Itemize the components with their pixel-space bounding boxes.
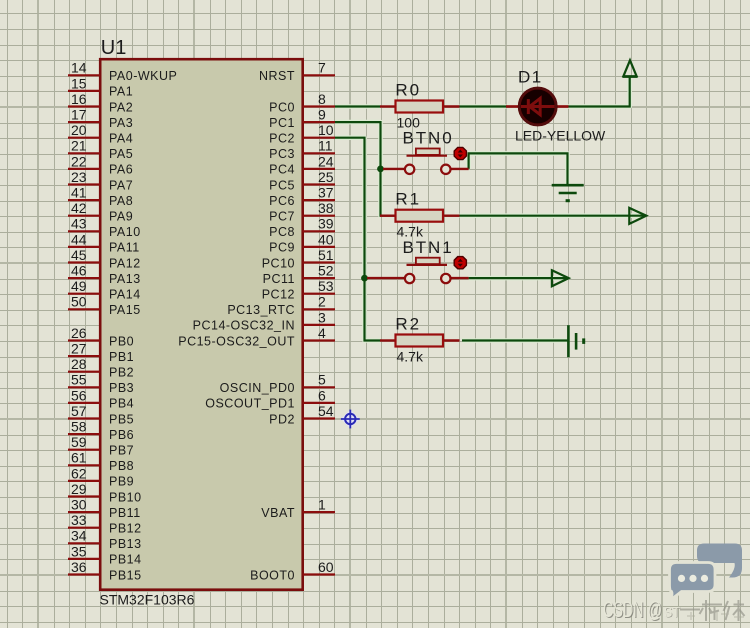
IC U1 (STM32F103R6 microcontroller) body [100, 37, 303, 590]
svg-text:36: 36 [71, 559, 87, 575]
wire R2 to ground [462, 338, 568, 343]
svg-text:PB13: PB13 [109, 537, 142, 551]
push button BTN0 [383, 129, 469, 174]
svg-text:28: 28 [71, 356, 87, 372]
resistor R0 value 100 [380, 80, 460, 130]
pin 55 PB3 [68, 372, 134, 395]
svg-text:PA14: PA14 [109, 288, 141, 302]
wire BTN0 right contact up to ground [469, 153, 568, 185]
svg-text:PB5: PB5 [109, 412, 134, 426]
svg-text:PB3: PB3 [109, 381, 134, 395]
pin 11 PC3 [269, 138, 335, 161]
pin 10 PC2 [269, 122, 335, 145]
pin 40 PC9 [269, 231, 335, 254]
svg-text:PB12: PB12 [109, 522, 142, 536]
svg-text:38: 38 [318, 200, 334, 216]
svg-text:21: 21 [71, 138, 87, 154]
svg-text:16: 16 [71, 91, 87, 107]
svg-text:PC9: PC9 [269, 241, 295, 255]
wire R1 to output arrow [460, 213, 646, 218]
pin 38 PC7 [269, 200, 335, 223]
svg-text:25: 25 [318, 169, 334, 185]
pin 27 PB1 [68, 341, 134, 364]
svg-text:59: 59 [71, 434, 87, 450]
LED D1 LED-YELLOW [506, 68, 606, 144]
svg-text:39: 39 [318, 216, 334, 232]
svg-text:PB4: PB4 [109, 397, 134, 411]
svg-text:U1: U1 [101, 37, 127, 59]
svg-text:PC0: PC0 [269, 100, 295, 114]
pin 17 PA3 [68, 107, 133, 130]
ground (R2, rotated right) [568, 325, 583, 357]
ground (BTN0) [552, 185, 584, 201]
svg-text:R0: R0 [395, 80, 421, 99]
resistor R2 value 4.7k [380, 314, 460, 364]
svg-text:PA3: PA3 [109, 116, 133, 130]
svg-text:STM32F103R6: STM32F103R6 [100, 592, 195, 608]
pin 44 PA11 [68, 231, 140, 254]
svg-text:PC14-OSC32_IN: PC14-OSC32_IN [193, 319, 295, 333]
svg-text:9: 9 [318, 107, 326, 123]
pin 61 PB8 [68, 450, 134, 473]
svg-text:PA15: PA15 [109, 303, 141, 317]
svg-text:PB10: PB10 [109, 490, 142, 504]
svg-text:PC3: PC3 [269, 147, 295, 161]
pin 7 NRST [259, 60, 335, 83]
svg-text:35: 35 [71, 543, 87, 559]
svg-text:15: 15 [71, 75, 87, 91]
pin 26 PB0 [68, 325, 134, 348]
svg-text:D1: D1 [518, 68, 543, 87]
svg-text:PC12: PC12 [262, 288, 295, 302]
svg-text:43: 43 [71, 216, 87, 232]
svg-text:46: 46 [71, 263, 87, 279]
svg-text:PB2: PB2 [109, 366, 134, 380]
svg-text:ST: ST [664, 604, 680, 621]
wire D1 to power arrow [568, 77, 630, 107]
svg-text:2: 2 [318, 294, 326, 310]
svg-text:PC2: PC2 [269, 132, 295, 146]
pin 60 BOOT0 [250, 559, 335, 582]
svg-text:PC15-OSC32_OUT: PC15-OSC32_OUT [178, 334, 295, 348]
pin 30 PB11 [68, 497, 141, 520]
pin 35 PB14 [68, 543, 142, 566]
pin 62 PB9 [68, 465, 134, 488]
svg-text:14: 14 [71, 60, 87, 76]
svg-text:6: 6 [318, 387, 326, 403]
svg-text:PC10: PC10 [262, 256, 295, 270]
pin 46 PA13 [68, 263, 141, 286]
svg-text:3: 3 [318, 309, 326, 325]
junction at PC2/BTN1 node [361, 275, 368, 282]
svg-text:53: 53 [318, 278, 334, 294]
pin 23 PA7 [68, 169, 133, 192]
svg-text:23: 23 [71, 169, 87, 185]
pin 2 PC13_RTC [227, 294, 335, 317]
svg-text:29: 29 [71, 481, 87, 497]
pin 24 PC4 [269, 153, 335, 176]
watermark logo bubbles [670, 544, 743, 601]
svg-text:CSDN @: CSDN @ [603, 597, 662, 622]
junction at PC1/BTN0 node [377, 166, 384, 173]
output terminal arrow (R1) [629, 208, 646, 224]
svg-text:5: 5 [318, 372, 326, 388]
svg-text:PB15: PB15 [109, 568, 142, 582]
pin 57 PB5 [68, 403, 134, 426]
pin 54 PD2 [269, 403, 335, 426]
svg-text:27: 27 [71, 341, 87, 357]
svg-text:56: 56 [71, 387, 87, 403]
svg-text:8: 8 [318, 91, 326, 107]
svg-text:1: 1 [318, 497, 326, 513]
svg-text:41: 41 [71, 185, 87, 201]
pin 43 PA10 [68, 216, 141, 239]
svg-text:PD2: PD2 [269, 412, 295, 426]
svg-text:PA0-WKUP: PA0-WKUP [109, 69, 177, 83]
svg-text:PB9: PB9 [109, 475, 134, 489]
cursor crosshair at PD2 [341, 410, 360, 429]
svg-text:60: 60 [318, 559, 334, 575]
svg-text:22: 22 [71, 153, 87, 169]
svg-text:4.7k: 4.7k [397, 348, 424, 364]
pin 3 PC14-OSC32_IN [193, 309, 335, 332]
svg-text:17: 17 [71, 107, 87, 123]
pin 45 PA12 [68, 247, 141, 270]
svg-text:52: 52 [318, 263, 334, 279]
svg-text:PC1: PC1 [269, 116, 295, 130]
wire R0 to D1 [460, 104, 507, 109]
svg-text:50: 50 [71, 294, 87, 310]
svg-text:PB6: PB6 [109, 428, 134, 442]
wire PC2 down to R2 [335, 138, 381, 341]
svg-text:PA2: PA2 [109, 100, 133, 114]
svg-text:PA7: PA7 [109, 178, 133, 192]
pin 33 PB12 [68, 512, 142, 535]
svg-text:VBAT: VBAT [261, 506, 295, 520]
svg-text:11: 11 [318, 138, 333, 154]
svg-text:PC11: PC11 [263, 272, 295, 286]
pin 29 PB10 [68, 481, 142, 504]
svg-text:45: 45 [71, 247, 87, 263]
svg-text:10: 10 [318, 122, 334, 138]
svg-text:PA12: PA12 [109, 256, 141, 270]
svg-text:PC8: PC8 [269, 225, 295, 239]
wire PC0 to R0 [335, 104, 381, 109]
pin 21 PA5 [68, 138, 133, 161]
pin 34 PB13 [68, 528, 142, 551]
pin 39 PC8 [269, 216, 335, 239]
svg-text:PA1: PA1 [109, 85, 133, 99]
svg-text:PB11: PB11 [109, 506, 141, 520]
svg-text:49: 49 [71, 278, 87, 294]
svg-text:42: 42 [71, 200, 87, 216]
svg-text:OSCIN_PD0: OSCIN_PD0 [220, 381, 295, 395]
pin 50 PA15 [68, 294, 141, 317]
pin 52 PC11 [263, 263, 335, 286]
svg-text:PB14: PB14 [109, 553, 142, 567]
svg-text:PB1: PB1 [109, 350, 134, 364]
pin 1 VBAT [261, 497, 335, 520]
svg-text:PC7: PC7 [269, 210, 295, 224]
svg-text:33: 33 [71, 512, 87, 528]
svg-text:44: 44 [71, 231, 87, 247]
pin 25 PC5 [269, 169, 335, 192]
pin 49 PA14 [68, 278, 141, 301]
svg-text:62: 62 [71, 465, 87, 481]
svg-text:PB8: PB8 [109, 459, 134, 473]
pin 5 OSCIN_PD0 [220, 372, 335, 395]
pin 37 PC6 [269, 185, 335, 208]
svg-text:57: 57 [71, 403, 87, 419]
pin 42 PA9 [68, 200, 133, 223]
svg-text:51: 51 [318, 247, 334, 263]
svg-text:37: 37 [318, 185, 334, 201]
pin 51 PC10 [262, 247, 335, 270]
svg-text:R2: R2 [395, 314, 421, 333]
svg-text:LED-YELLOW: LED-YELLOW [515, 128, 606, 144]
svg-text:54: 54 [318, 403, 334, 419]
power terminal arrow up [623, 60, 638, 77]
pin 14 PA0-WKUP [68, 60, 177, 83]
pin 6 OSCOUT_PD1 [205, 387, 335, 410]
pin 41 PA8 [68, 185, 133, 208]
svg-text:61: 61 [71, 450, 87, 466]
svg-text:PA6: PA6 [109, 163, 133, 177]
svg-text:PC5: PC5 [269, 178, 295, 192]
pin 20 PA4 [68, 122, 133, 145]
svg-text:4: 4 [318, 325, 326, 341]
svg-text:PA13: PA13 [109, 272, 141, 286]
svg-text:24: 24 [318, 153, 334, 169]
pin 58 PB6 [68, 419, 134, 442]
svg-text:PA8: PA8 [109, 194, 133, 208]
watermark text CSDN @ST-bubing [603, 597, 745, 623]
pin 22 PA6 [68, 153, 133, 176]
svg-text:34: 34 [71, 528, 87, 544]
svg-text:PB0: PB0 [109, 334, 134, 348]
svg-text:58: 58 [71, 419, 87, 435]
wire BTN1 right contact to arrow [469, 276, 568, 281]
svg-text:PA9: PA9 [109, 210, 133, 224]
output terminal arrow (BTN1) [552, 270, 569, 286]
pin 8 PC0 [269, 91, 335, 114]
svg-text:PC13_RTC: PC13_RTC [227, 303, 295, 317]
svg-text:BTN0: BTN0 [403, 129, 454, 148]
pin 59 PB7 [68, 434, 134, 457]
pin 56 PB4 [68, 387, 134, 410]
pin 4 PC15-OSC32_OUT [178, 325, 335, 348]
pin 16 PA2 [68, 91, 133, 114]
svg-text:55: 55 [71, 372, 87, 388]
svg-text:PC4: PC4 [269, 163, 295, 177]
svg-text:NRST: NRST [259, 69, 295, 83]
svg-text:BTN1: BTN1 [403, 238, 454, 257]
pin 9 PC1 [269, 107, 335, 130]
wire PC1 down to R1 [335, 122, 381, 216]
svg-text:40: 40 [318, 231, 334, 247]
svg-text:BOOT0: BOOT0 [250, 568, 295, 582]
svg-text:PA11: PA11 [109, 241, 140, 255]
pin 36 PB15 [68, 559, 142, 582]
svg-text:PA4: PA4 [109, 132, 133, 146]
svg-text:7: 7 [318, 60, 326, 76]
svg-text:30: 30 [71, 497, 87, 513]
svg-text:PA10: PA10 [109, 225, 141, 239]
pin 15 PA1 [68, 75, 133, 98]
push button BTN1 [367, 238, 469, 283]
pin 53 PC12 [262, 278, 335, 301]
svg-text:PA5: PA5 [109, 147, 133, 161]
svg-text:26: 26 [71, 325, 87, 341]
resistor R1 value 4.7k [380, 190, 460, 240]
pin 28 PB2 [68, 356, 134, 379]
svg-text:20: 20 [71, 122, 87, 138]
svg-text:PB7: PB7 [109, 444, 134, 458]
svg-text:PC6: PC6 [269, 194, 295, 208]
svg-text:OSCOUT_PD1: OSCOUT_PD1 [205, 397, 295, 411]
svg-text:R1: R1 [395, 190, 421, 209]
